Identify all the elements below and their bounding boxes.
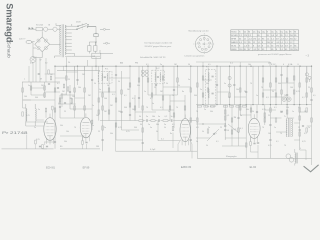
wire mains top bbox=[28, 28, 36, 30]
svg-text:8: 8 bbox=[253, 45, 254, 47]
coil L2 bbox=[35, 109, 36, 122]
wire bridge bottom bbox=[33, 48, 42, 58]
svg-text:-1,3: -1,3 bbox=[280, 38, 283, 40]
svg-text:0,9: 0,9 bbox=[285, 45, 288, 47]
svg-text:95: 95 bbox=[267, 35, 269, 37]
svg-text:50: 50 bbox=[227, 130, 229, 132]
svg-text:25: 25 bbox=[268, 115, 270, 117]
svg-text:0,1: 0,1 bbox=[298, 107, 301, 109]
svg-text:0,25: 0,25 bbox=[302, 141, 306, 143]
svg-text:250: 250 bbox=[239, 49, 242, 51]
tiny value labels bbox=[24, 74, 316, 147]
svg-text:2M: 2M bbox=[104, 111, 107, 113]
svg-text:0,3: 0,3 bbox=[214, 133, 217, 135]
svg-text:Klangregler: Klangregler bbox=[226, 155, 237, 158]
svg-text:25: 25 bbox=[308, 87, 310, 89]
svg-text:10k: 10k bbox=[58, 103, 61, 105]
svg-text:0,3: 0,3 bbox=[112, 94, 115, 96]
svg-text:2,2: 2,2 bbox=[248, 35, 251, 37]
svg-text:5n: 5n bbox=[99, 89, 101, 91]
svg-text:0,1: 0,1 bbox=[240, 128, 243, 130]
junction bbox=[77, 66, 78, 67]
parts above V1 bbox=[45, 106, 53, 118]
svg-text:5n: 5n bbox=[107, 85, 109, 87]
svg-text:70: 70 bbox=[284, 95, 286, 97]
V4 cathode parts bbox=[250, 137, 260, 159]
junction bbox=[190, 66, 191, 67]
cluster mid-left bbox=[58, 87, 76, 108]
svg-text:5n: 5n bbox=[188, 79, 190, 81]
svg-text:2M: 2M bbox=[110, 105, 113, 107]
svg-text:0,25: 0,25 bbox=[268, 145, 272, 147]
svg-text:Ug: Ug bbox=[257, 31, 259, 33]
svg-text:0,9: 0,9 bbox=[276, 38, 279, 40]
svg-text:2n: 2n bbox=[160, 64, 162, 66]
output transformer bbox=[286, 118, 292, 137]
wires horizontal links bbox=[23, 78, 306, 160]
svg-text:Fi 2: Fi 2 bbox=[156, 68, 160, 70]
svg-text:250: 250 bbox=[294, 49, 297, 51]
svg-text:6,3 V~: 6,3 V~ bbox=[271, 64, 277, 66]
svg-text:80: 80 bbox=[60, 146, 63, 148]
svg-text:0,1: 0,1 bbox=[160, 107, 163, 109]
lamp circle 2 bbox=[53, 27, 57, 31]
svg-text:1n: 1n bbox=[256, 95, 258, 97]
svg-text:0,25: 0,25 bbox=[262, 109, 266, 111]
junction bbox=[129, 66, 130, 67]
wire netz right bbox=[32, 42, 36, 49]
svg-text:Pr 21748: Pr 21748 bbox=[2, 131, 28, 135]
svg-text:1,1: 1,1 bbox=[257, 42, 260, 44]
choke box bbox=[92, 53, 101, 58]
svg-text:~ 3: ~ 3 bbox=[306, 54, 310, 57]
svg-text:95: 95 bbox=[262, 49, 264, 51]
svg-text:5k: 5k bbox=[118, 81, 120, 83]
note text line2 bbox=[145, 46, 172, 48]
svg-text:12: 12 bbox=[257, 49, 259, 51]
svg-text:50k: 50k bbox=[156, 124, 159, 126]
svg-text:Novalfassung von der: Novalfassung von der bbox=[189, 29, 209, 32]
svg-text:2n: 2n bbox=[146, 116, 148, 118]
svg-text:30k: 30k bbox=[70, 98, 73, 100]
cable marker b bbox=[103, 42, 110, 44]
label 220V bbox=[76, 22, 81, 24]
switch S2 bbox=[77, 23, 88, 27]
svg-text:8: 8 bbox=[248, 45, 249, 47]
svg-text:100: 100 bbox=[104, 98, 107, 100]
svg-text:220 V~: 220 V~ bbox=[19, 38, 27, 40]
svg-text:25: 25 bbox=[298, 127, 300, 129]
svg-text:50k: 50k bbox=[64, 141, 67, 143]
svg-text:Gl: Gl bbox=[48, 25, 51, 27]
small components bbox=[22, 70, 313, 147]
svg-text:5n: 5n bbox=[224, 83, 226, 85]
svg-text:Uk: Uk bbox=[244, 31, 246, 33]
svg-text:50k: 50k bbox=[110, 133, 113, 135]
diode circles bbox=[228, 76, 231, 87]
left verticals bbox=[29, 57, 46, 83]
V3 pins bbox=[178, 140, 192, 159]
bridge rectifier GR1 bbox=[35, 37, 50, 52]
svg-text:70: 70 bbox=[146, 107, 148, 109]
svg-text:10k: 10k bbox=[248, 64, 251, 66]
electrolytic C2 bbox=[94, 42, 97, 54]
svg-text:5n: 5n bbox=[104, 127, 106, 129]
svg-text:8: 8 bbox=[262, 45, 263, 47]
svg-text:50: 50 bbox=[188, 64, 190, 66]
svg-text:5k: 5k bbox=[178, 85, 180, 87]
svg-text:1n: 1n bbox=[144, 91, 146, 93]
wire bridge right bbox=[50, 43, 55, 45]
fi3 label bbox=[206, 66, 209, 68]
svg-text:100: 100 bbox=[268, 133, 271, 135]
wire bbox=[57, 28, 77, 30]
svg-text:5n: 5n bbox=[240, 115, 242, 117]
svg-text:0,3: 0,3 bbox=[196, 127, 199, 129]
bus left upper bbox=[22, 81, 60, 83]
svg-text:2,2: 2,2 bbox=[285, 38, 288, 40]
svg-text:0,5: 0,5 bbox=[208, 64, 211, 66]
svg-text:2n: 2n bbox=[204, 109, 206, 111]
junction bbox=[115, 66, 116, 67]
svg-text:Lötseite aus gesehen: Lötseite aus gesehen bbox=[185, 55, 206, 58]
svg-text:1,1: 1,1 bbox=[285, 42, 288, 44]
svg-text:0,1: 0,1 bbox=[230, 63, 234, 65]
junction bbox=[262, 66, 263, 67]
svg-text:0,1: 0,1 bbox=[302, 97, 305, 99]
socket caption top bbox=[189, 29, 209, 32]
svg-text:0,3: 0,3 bbox=[234, 129, 237, 131]
IF can Fi3 bbox=[206, 70, 216, 107]
ratio detector coils bbox=[282, 97, 291, 101]
svg-text:1,1: 1,1 bbox=[267, 38, 270, 40]
junction bbox=[250, 66, 251, 67]
svg-text:1,1: 1,1 bbox=[280, 42, 283, 44]
svg-text:70: 70 bbox=[284, 145, 286, 147]
pilot lamps bbox=[305, 66, 311, 82]
svg-text:1,1: 1,1 bbox=[271, 38, 274, 40]
lamp circle 1 bbox=[44, 27, 48, 31]
bus top bbox=[55, 65, 312, 67]
wire bbox=[95, 37, 97, 46]
svg-text:50k: 50k bbox=[137, 85, 140, 87]
svg-text:100: 100 bbox=[24, 96, 27, 98]
svg-text:ECH 81: ECH 81 bbox=[46, 166, 55, 169]
svg-text:10k: 10k bbox=[236, 89, 239, 91]
svg-text:5k: 5k bbox=[139, 116, 141, 118]
junction bbox=[240, 66, 241, 67]
svg-text:12: 12 bbox=[244, 38, 246, 40]
svg-text:Ug: Ug bbox=[285, 31, 287, 33]
svg-text:25: 25 bbox=[64, 111, 66, 113]
svg-text:12: 12 bbox=[253, 42, 255, 44]
part number text bbox=[2, 131, 28, 135]
svg-text:6,3: 6,3 bbox=[239, 42, 242, 44]
junction bbox=[66, 66, 67, 67]
IF can Fi1 bbox=[98, 71, 112, 83]
svg-text:0,3 A: 0,3 A bbox=[288, 63, 293, 66]
svg-text:0,1: 0,1 bbox=[216, 141, 219, 143]
svg-text:47: 47 bbox=[271, 42, 273, 44]
svg-text:5n: 5n bbox=[150, 127, 152, 129]
svg-text:1,1: 1,1 bbox=[280, 49, 283, 51]
heater stubs bbox=[63, 66, 96, 70]
svg-text:2M: 2M bbox=[41, 85, 44, 87]
svg-text:95: 95 bbox=[262, 38, 264, 40]
junction bbox=[54, 66, 55, 67]
bus second bbox=[57, 70, 100, 72]
svg-text:70: 70 bbox=[176, 107, 178, 109]
wire mid link bbox=[158, 121, 180, 148]
junction bbox=[202, 66, 203, 67]
junction bbox=[95, 66, 96, 67]
svg-text:L: L bbox=[24, 79, 26, 81]
switch link bbox=[81, 24, 83, 30]
component row mid bbox=[197, 104, 307, 107]
svg-text:25: 25 bbox=[220, 127, 222, 129]
svg-text:0,25: 0,25 bbox=[118, 127, 122, 129]
svg-text:50k: 50k bbox=[210, 111, 213, 113]
svg-text:1M: 1M bbox=[50, 74, 53, 76]
svg-text:12: 12 bbox=[294, 38, 296, 40]
svg-text:2,2: 2,2 bbox=[285, 35, 288, 37]
label EABC80 bbox=[181, 166, 192, 169]
tube socket top view bbox=[193, 33, 215, 55]
svg-text:250: 250 bbox=[290, 35, 293, 37]
svg-text:10k: 10k bbox=[66, 131, 69, 133]
svg-text:250: 250 bbox=[290, 38, 293, 40]
svg-text:300: 300 bbox=[134, 127, 137, 129]
wire bbox=[48, 28, 53, 30]
svg-text:EM80: EM80 bbox=[231, 49, 236, 51]
svg-text:300: 300 bbox=[278, 83, 281, 85]
right side links bbox=[264, 100, 313, 140]
svg-text:85: 85 bbox=[244, 49, 246, 51]
svg-text:47: 47 bbox=[248, 49, 250, 51]
svg-text:Röhre: Röhre bbox=[231, 31, 236, 33]
rectifier cap C+ bbox=[94, 33, 98, 37]
svg-text:5n: 5n bbox=[196, 141, 198, 143]
svg-text:170: 170 bbox=[253, 38, 256, 40]
svg-text:70: 70 bbox=[250, 83, 252, 85]
label fuse text bbox=[36, 24, 51, 27]
wire bbox=[26, 104, 35, 126]
svg-text:Fi 3: Fi 3 bbox=[206, 66, 209, 68]
pickup circle bbox=[30, 57, 42, 83]
svg-text:85: 85 bbox=[294, 35, 296, 37]
mesh left links bbox=[23, 72, 93, 130]
svg-text:2n: 2n bbox=[92, 105, 94, 107]
wire bbox=[88, 25, 96, 34]
connector Netz bbox=[26, 40, 32, 43]
svg-text:4: 4 bbox=[283, 64, 284, 66]
tube V4 EL84 bbox=[248, 114, 260, 142]
wires transformer taps bbox=[65, 24, 72, 56]
svg-text:70: 70 bbox=[196, 111, 198, 113]
wire bridge top bbox=[41, 31, 43, 37]
svg-text:250V: 250V bbox=[76, 22, 81, 24]
svg-text:0,25: 0,25 bbox=[296, 91, 300, 93]
svg-text:1n: 1n bbox=[148, 124, 150, 126]
note text line1 bbox=[145, 42, 173, 45]
junction bbox=[216, 66, 217, 67]
V1 cathode parts bbox=[42, 142, 48, 149]
svg-text:5k: 5k bbox=[94, 83, 96, 85]
misc labels bbox=[24, 62, 302, 159]
tube V2 EF89 bbox=[80, 113, 91, 141]
svg-text:47: 47 bbox=[276, 35, 278, 37]
wire taps primary bbox=[55, 23, 61, 58]
svg-text:0,3: 0,3 bbox=[304, 133, 307, 135]
label EF89 bbox=[83, 166, 90, 169]
IF can Fi2 bbox=[152, 70, 165, 84]
svg-text:0,1: 0,1 bbox=[150, 98, 153, 100]
svg-text:-1,3: -1,3 bbox=[248, 38, 251, 40]
svg-text:0,25: 0,25 bbox=[126, 131, 130, 133]
svg-text:Ug: Ug bbox=[262, 31, 264, 33]
svg-text:25: 25 bbox=[244, 91, 246, 93]
svg-text:2,2: 2,2 bbox=[239, 35, 242, 37]
svg-text:EF89: EF89 bbox=[231, 38, 236, 40]
svg-text:8: 8 bbox=[262, 42, 263, 44]
wire bbox=[89, 41, 96, 42]
svg-text:0,9: 0,9 bbox=[271, 35, 274, 37]
svg-text:1n: 1n bbox=[168, 111, 170, 113]
junction bbox=[147, 66, 148, 67]
junction bbox=[162, 66, 163, 67]
svg-text:5k: 5k bbox=[206, 145, 208, 147]
svg-text:0,5: 0,5 bbox=[132, 98, 135, 100]
svg-text:25: 25 bbox=[68, 79, 70, 81]
svg-text:2n: 2n bbox=[164, 124, 166, 126]
svg-text:2,2: 2,2 bbox=[244, 42, 247, 44]
svg-text:8: 8 bbox=[239, 45, 240, 47]
svg-text:2n: 2n bbox=[208, 127, 210, 129]
wires vertical network bbox=[23, 57, 312, 165]
svg-text:1n: 1n bbox=[92, 125, 94, 127]
svg-text:ECH81: ECH81 bbox=[231, 35, 237, 37]
svg-text:1n: 1n bbox=[292, 111, 294, 113]
svg-text:85: 85 bbox=[294, 45, 296, 47]
cluster V3-V4 bbox=[222, 105, 246, 146]
svg-text:95: 95 bbox=[248, 42, 250, 44]
svg-text:0,1: 0,1 bbox=[64, 94, 67, 96]
svg-text:0,1: 0,1 bbox=[124, 95, 127, 97]
svg-text:65: 65 bbox=[239, 38, 241, 40]
tube V3 EABC80 bbox=[180, 115, 190, 146]
svg-text:Schaltbild Nr. 5043 / W 23: Schaltbild Nr. 5043 / W 23 bbox=[140, 56, 166, 59]
svg-text:Die Spannungen wurden mit: Die Spannungen wurden mit bbox=[145, 42, 173, 45]
bus 120 component chain bbox=[100, 119, 196, 122]
junction bbox=[287, 66, 288, 67]
svg-text:5k: 5k bbox=[202, 131, 204, 133]
svg-text:50k: 50k bbox=[206, 83, 209, 85]
svg-text:1,1: 1,1 bbox=[257, 38, 260, 40]
svg-text:5n: 5n bbox=[28, 85, 30, 87]
svg-text:170: 170 bbox=[276, 45, 279, 47]
line B+ upper bbox=[196, 62, 270, 66]
bus gnd left bbox=[2, 135, 54, 149]
label Netz 220V bbox=[19, 38, 27, 40]
wire stub bbox=[100, 50, 113, 54]
svg-text:1M: 1M bbox=[96, 115, 99, 117]
wire HT bbox=[72, 25, 78, 27]
electrolytic C1 bbox=[88, 42, 91, 54]
svg-text:50: 50 bbox=[45, 63, 48, 65]
speaker chevron bbox=[304, 165, 319, 172]
svg-text:1n: 1n bbox=[274, 127, 276, 129]
svg-text:70: 70 bbox=[172, 95, 174, 97]
svg-text:0,1µF: 0,1µF bbox=[150, 149, 156, 151]
svg-text:10k: 10k bbox=[78, 87, 81, 89]
svg-text:6,3: 6,3 bbox=[280, 45, 283, 47]
svg-text:50k: 50k bbox=[60, 125, 63, 127]
svg-text:2n: 2n bbox=[200, 89, 202, 91]
svg-text:20 kΩ/V gegen Masse gem.: 20 kΩ/V gegen Masse gem. bbox=[145, 46, 172, 48]
junction bbox=[229, 66, 230, 67]
svg-text:0,1: 0,1 bbox=[276, 141, 279, 143]
svg-text:2n: 2n bbox=[34, 127, 36, 129]
svg-text:1M: 1M bbox=[96, 146, 99, 148]
label ECH81 bbox=[46, 166, 55, 169]
svg-text:8n: 8n bbox=[182, 91, 184, 93]
tone switch cluster bbox=[196, 123, 226, 141]
svg-text:2n: 2n bbox=[38, 109, 40, 111]
cable marker a bbox=[100, 28, 110, 30]
bus gnd left2 bbox=[60, 148, 100, 150]
junction bbox=[311, 66, 312, 67]
svg-text:47: 47 bbox=[290, 45, 292, 47]
speaker circles bbox=[286, 154, 294, 162]
svg-text:25: 25 bbox=[98, 131, 100, 133]
voltage table bbox=[231, 30, 299, 51]
svg-text:EABC 80: EABC 80 bbox=[181, 166, 192, 169]
bus top labels bbox=[146, 64, 251, 66]
transformer secondary winding bbox=[65, 25, 66, 54]
osc coil circles bbox=[141, 70, 148, 77]
svg-text:95: 95 bbox=[280, 35, 282, 37]
svg-text:Si 0,5A: Si 0,5A bbox=[36, 24, 43, 27]
bus mid bbox=[196, 104, 312, 106]
bus labels right bbox=[271, 63, 300, 66]
svg-text:EABC8: EABC8 bbox=[231, 41, 237, 44]
svg-text:-1,3: -1,3 bbox=[244, 45, 247, 47]
svg-text:170: 170 bbox=[290, 49, 293, 51]
svg-text:300: 300 bbox=[124, 107, 127, 109]
title Smaragd bbox=[5, 3, 15, 42]
svg-text:170: 170 bbox=[244, 35, 247, 37]
tube V1 ECH81 bbox=[44, 114, 56, 145]
svg-text:50k: 50k bbox=[246, 109, 249, 111]
svg-text:30: 30 bbox=[140, 124, 142, 126]
label bbox=[161, 139, 164, 141]
plug arrows bbox=[29, 27, 34, 29]
svg-text:EL 84: EL 84 bbox=[250, 166, 257, 169]
svg-text:Schaub: Schaub bbox=[6, 42, 12, 59]
svg-text:5k: 5k bbox=[166, 83, 168, 85]
svg-text:M: M bbox=[40, 79, 42, 81]
svg-text:1,1: 1,1 bbox=[267, 45, 270, 47]
svg-text:70: 70 bbox=[74, 127, 76, 129]
svg-text:2,2: 2,2 bbox=[290, 42, 293, 44]
svg-text:1M: 1M bbox=[127, 89, 130, 91]
svg-text:5n: 5n bbox=[158, 116, 160, 118]
svg-text:0,2: 0,2 bbox=[165, 116, 168, 118]
svg-text:300: 300 bbox=[35, 97, 38, 99]
svg-text:65: 65 bbox=[271, 45, 273, 47]
svg-text:-1,3: -1,3 bbox=[253, 49, 256, 51]
svg-text:100: 100 bbox=[280, 111, 283, 113]
